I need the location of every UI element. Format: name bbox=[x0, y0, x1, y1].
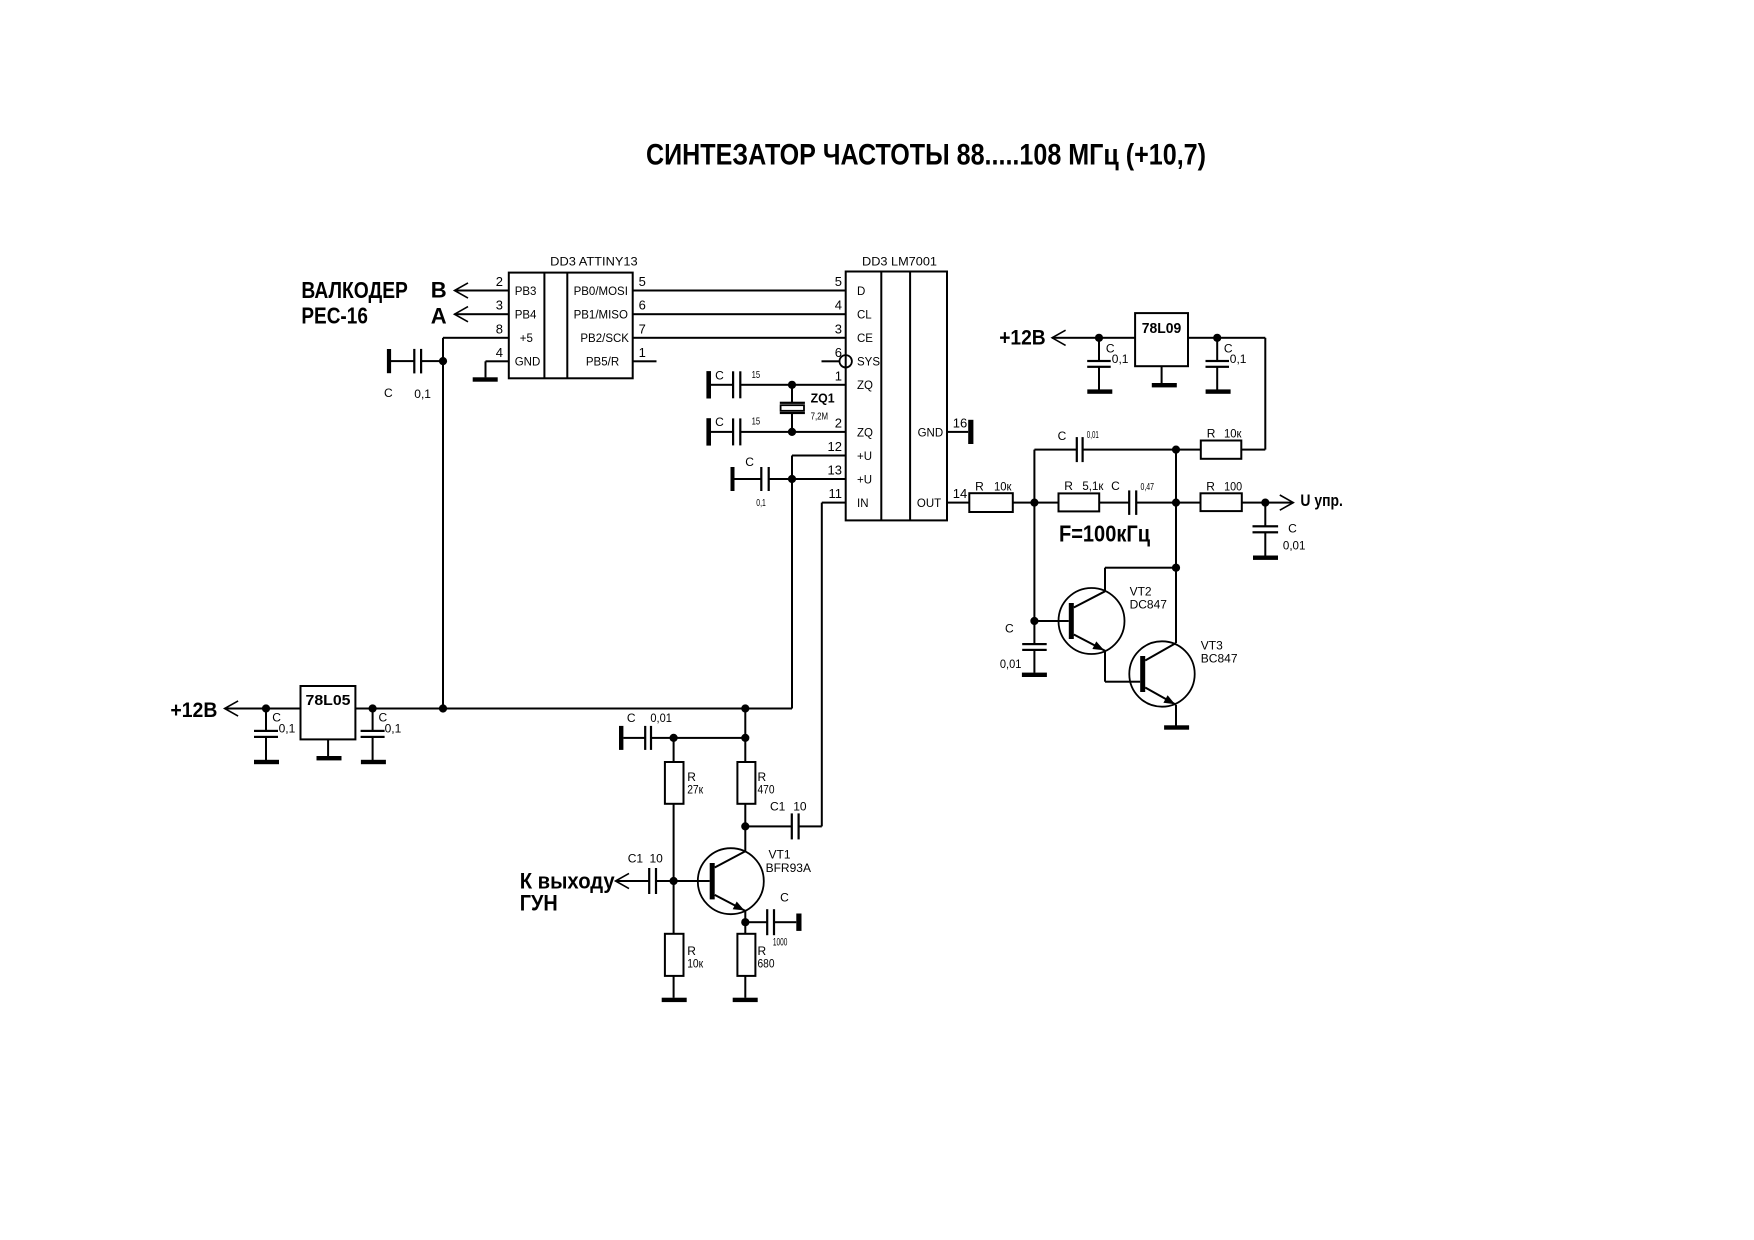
svg-text:C: C bbox=[384, 386, 393, 400]
svg-text:680: 680 bbox=[758, 957, 775, 971]
svg-text:14: 14 bbox=[953, 486, 967, 501]
svg-text:1000: 1000 bbox=[773, 936, 788, 948]
svg-text:0,1: 0,1 bbox=[385, 722, 402, 736]
svg-text:R: R bbox=[1207, 427, 1216, 441]
svg-text:PB0/MOSI: PB0/MOSI bbox=[574, 286, 628, 298]
svg-text:16: 16 bbox=[953, 415, 967, 430]
svg-text:CL: CL bbox=[857, 310, 872, 322]
svg-text:12: 12 bbox=[828, 439, 842, 454]
svg-text:DC847: DC847 bbox=[1130, 597, 1168, 611]
svg-text:GND: GND bbox=[515, 357, 541, 369]
svg-text:10: 10 bbox=[793, 800, 807, 814]
svg-text:4: 4 bbox=[835, 298, 842, 313]
svg-text:0,01: 0,01 bbox=[650, 711, 672, 725]
svg-text:6: 6 bbox=[639, 298, 646, 313]
svg-text:0,1: 0,1 bbox=[756, 497, 766, 509]
svg-text:ВАЛКОДЕР: ВАЛКОДЕР bbox=[301, 277, 408, 303]
svg-text:1: 1 bbox=[639, 345, 646, 360]
svg-text:DD3 LM7001: DD3 LM7001 bbox=[862, 255, 937, 269]
svg-text:СИНТЕЗАТОР ЧАСТОТЫ 88.....108: СИНТЕЗАТОР ЧАСТОТЫ 88.....108 МГц (+10,7… bbox=[646, 139, 1206, 172]
svg-text:DD3 ATTINY13: DD3 ATTINY13 bbox=[550, 255, 638, 269]
svg-text:R: R bbox=[1064, 479, 1073, 493]
svg-text:10к: 10к bbox=[1224, 427, 1242, 441]
svg-text:D: D bbox=[857, 286, 865, 298]
svg-text:C1: C1 bbox=[628, 852, 644, 866]
svg-text:0,47: 0,47 bbox=[1141, 481, 1155, 493]
svg-text:+12В: +12В bbox=[999, 327, 1045, 350]
svg-text:IN: IN bbox=[857, 498, 869, 510]
svg-text:3: 3 bbox=[496, 298, 503, 313]
svg-text:C: C bbox=[715, 415, 724, 429]
svg-text:BC847: BC847 bbox=[1201, 651, 1238, 665]
svg-text:10к: 10к bbox=[994, 479, 1012, 493]
svg-text:78L09: 78L09 bbox=[1142, 320, 1182, 337]
svg-text:C: C bbox=[745, 455, 754, 469]
svg-text:0,1: 0,1 bbox=[279, 722, 296, 736]
svg-text:PB3: PB3 bbox=[515, 286, 537, 298]
svg-text:PB5/R: PB5/R bbox=[586, 357, 619, 369]
svg-text:0,01: 0,01 bbox=[1087, 429, 1099, 441]
svg-text:4: 4 bbox=[496, 345, 503, 360]
svg-text:PB4: PB4 bbox=[515, 310, 537, 322]
svg-text:+5: +5 bbox=[520, 333, 533, 345]
svg-text:1: 1 bbox=[835, 368, 842, 383]
svg-text:GND: GND bbox=[918, 427, 944, 439]
svg-text:+12В: +12В bbox=[170, 699, 217, 722]
svg-text:+U: +U bbox=[857, 474, 872, 486]
svg-text:ГУН: ГУН bbox=[520, 891, 558, 916]
svg-text:0,1: 0,1 bbox=[414, 387, 431, 401]
svg-text:C: C bbox=[1111, 479, 1120, 493]
svg-text:VT3: VT3 bbox=[1201, 639, 1223, 653]
svg-text:0,01: 0,01 bbox=[1000, 657, 1022, 671]
svg-text:F=100кГц: F=100кГц bbox=[1059, 521, 1150, 547]
svg-text:BFR93A: BFR93A bbox=[766, 861, 811, 875]
svg-text:470: 470 bbox=[758, 782, 775, 796]
svg-text:3: 3 bbox=[835, 321, 842, 336]
svg-text:C1: C1 bbox=[770, 800, 786, 814]
svg-text:CE: CE bbox=[857, 333, 873, 345]
svg-text:0,01: 0,01 bbox=[1283, 538, 1306, 552]
svg-text:PB2/SCK: PB2/SCK bbox=[580, 333, 629, 345]
svg-text:R: R bbox=[1206, 479, 1215, 493]
svg-text:10: 10 bbox=[650, 852, 664, 866]
svg-text:7: 7 bbox=[639, 321, 646, 336]
svg-text:13: 13 bbox=[828, 463, 842, 478]
svg-text:2: 2 bbox=[835, 415, 842, 430]
svg-text:27к: 27к bbox=[687, 782, 704, 796]
svg-text:В: В bbox=[431, 278, 447, 303]
svg-text:0,1: 0,1 bbox=[1230, 352, 1247, 366]
svg-text:2: 2 bbox=[496, 274, 503, 289]
svg-text:11: 11 bbox=[829, 486, 843, 501]
svg-text:100: 100 bbox=[1224, 479, 1242, 493]
svg-text:0,1: 0,1 bbox=[1112, 352, 1129, 366]
svg-text:7,2М: 7,2М bbox=[811, 411, 829, 423]
svg-text:5,1к: 5,1к bbox=[1082, 479, 1104, 493]
svg-text:ZQ: ZQ bbox=[857, 427, 873, 439]
svg-text:+U: +U bbox=[857, 451, 872, 463]
svg-text:SYS: SYS bbox=[857, 357, 880, 369]
svg-text:C: C bbox=[780, 891, 789, 905]
svg-text:ZQ: ZQ bbox=[857, 380, 873, 392]
svg-text:C: C bbox=[1288, 521, 1297, 535]
svg-text:R: R bbox=[975, 479, 984, 493]
svg-text:10к: 10к bbox=[687, 957, 704, 971]
svg-text:РЕС-16: РЕС-16 bbox=[301, 302, 368, 328]
svg-text:C: C bbox=[627, 711, 636, 725]
svg-text:VT1: VT1 bbox=[769, 848, 791, 862]
svg-text:C: C bbox=[1005, 621, 1014, 635]
svg-text:8: 8 bbox=[496, 321, 503, 336]
svg-text:15: 15 bbox=[752, 369, 761, 381]
svg-text:C: C bbox=[1058, 429, 1067, 443]
svg-text:C: C bbox=[715, 369, 724, 383]
svg-text:OUT: OUT bbox=[917, 498, 941, 510]
svg-text:PB1/MISO: PB1/MISO bbox=[574, 310, 628, 322]
svg-text:А: А bbox=[431, 303, 447, 328]
svg-text:5: 5 bbox=[835, 274, 842, 289]
svg-text:ZQ1: ZQ1 bbox=[811, 391, 835, 406]
svg-text:78L05: 78L05 bbox=[306, 692, 351, 709]
svg-text:U упр.: U упр. bbox=[1300, 491, 1343, 510]
svg-text:15: 15 bbox=[752, 416, 761, 428]
svg-text:5: 5 bbox=[639, 274, 646, 289]
